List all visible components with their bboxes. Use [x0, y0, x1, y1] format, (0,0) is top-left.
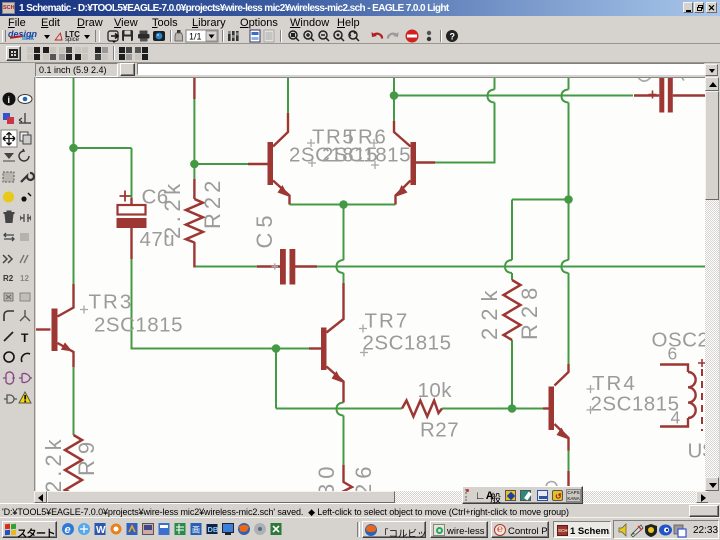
- svg-text:12: 12: [20, 274, 29, 283]
- svg-text:TR3: TR3: [89, 291, 134, 314]
- svg-text:OSC2: OSC2: [652, 329, 706, 352]
- svg-text:22k: 22k: [477, 284, 502, 340]
- svg-text:W: W: [96, 525, 106, 536]
- svg-text:10k: 10k: [418, 379, 453, 402]
- svg-text:2SC1815: 2SC1815: [322, 144, 411, 167]
- svg-text:6: 6: [668, 344, 678, 364]
- svg-text:C5: C5: [252, 210, 277, 248]
- svg-text:26: 26: [351, 462, 376, 491]
- svg-text:R28: R28: [517, 282, 542, 340]
- svg-text:?: ?: [450, 32, 456, 42]
- svg-text:R22: R22: [200, 177, 225, 229]
- svg-text:2SC1815: 2SC1815: [363, 332, 452, 355]
- svg-text:U$: U$: [688, 440, 706, 463]
- svg-text:画: 画: [192, 526, 200, 535]
- svg-text:T: T: [21, 331, 29, 345]
- svg-text:1/1: 1/1: [189, 32, 202, 42]
- svg-text:4: 4: [671, 408, 681, 428]
- svg-text:2SC1815: 2SC1815: [591, 393, 680, 416]
- svg-text:2.2k: 2.2k: [160, 179, 185, 239]
- svg-text:R2: R2: [3, 274, 14, 283]
- svg-text:R9: R9: [74, 436, 99, 476]
- svg-text:2SC1815: 2SC1815: [94, 314, 183, 337]
- svg-text:i: i: [8, 95, 11, 105]
- svg-text:2.2k: 2.2k: [41, 435, 66, 491]
- svg-text:TR7: TR7: [365, 310, 410, 333]
- svg-text:30: 30: [314, 462, 339, 491]
- svg-text:R27: R27: [420, 419, 459, 442]
- svg-text:DB: DB: [208, 525, 219, 534]
- svg-text:e: e: [65, 524, 71, 536]
